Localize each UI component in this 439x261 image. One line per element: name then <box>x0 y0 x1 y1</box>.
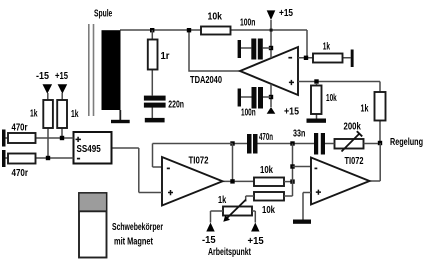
node inverting input TL072-2 <box>290 164 294 168</box>
pin minus TDA2040 <box>288 57 292 59</box>
pin minus TL072-2 <box>315 167 318 169</box>
svg-text:+15: +15 <box>55 71 68 82</box>
svg-text:SS495: SS495 <box>77 144 102 155</box>
op-amp TL072 first <box>162 157 223 206</box>
resistor 470r lower <box>8 154 36 164</box>
wire 200k leads <box>325 143 378 145</box>
node supply bottom cap <box>269 95 273 99</box>
wire 1k bias drops <box>48 93 62 158</box>
resistor 1k to ground <box>313 54 343 63</box>
power -15 arrow Arbeitspunkt <box>206 223 214 232</box>
svg-text:220n: 220n <box>168 100 184 111</box>
svg-text:-15: -15 <box>36 71 49 82</box>
power +15 arrow bottom <box>267 107 276 114</box>
coil Spule core <box>102 30 121 110</box>
node non-inverting TDA2040 <box>314 79 318 83</box>
wire 470r upper lead <box>6 137 74 139</box>
wire non-inverting TL072-2 to ground <box>303 193 311 220</box>
wire +15 supply top to TDA2040 <box>270 20 272 58</box>
node Regelung <box>378 141 382 145</box>
resistor 1k bias right <box>57 100 67 128</box>
svg-text:TI072: TI072 <box>189 155 209 166</box>
ground below coil <box>111 120 130 123</box>
capacitor 220n <box>144 96 166 101</box>
svg-text:+15: +15 <box>279 8 293 19</box>
wire 1r leads <box>151 30 153 118</box>
wire TL072-2 output to Regelung node <box>370 143 381 181</box>
capacitor 33n <box>314 133 318 155</box>
svg-text:10k: 10k <box>208 12 223 23</box>
svg-text:1r: 1r <box>161 51 170 62</box>
capacitor 100n bottom <box>252 87 257 109</box>
svg-text:10k: 10k <box>260 165 273 176</box>
capacitor 470n <box>247 134 252 154</box>
svg-text:470r: 470r <box>12 168 29 179</box>
ground left lower <box>2 150 6 167</box>
node 470n left <box>230 141 234 145</box>
wire 100n bottom leads <box>241 96 271 98</box>
node inverting bus at 10k <box>290 179 294 183</box>
ground left upper <box>2 130 6 147</box>
svg-text:33n: 33n <box>293 129 305 140</box>
sensor SS495 <box>74 132 112 164</box>
ground plate 100n bottom <box>238 89 241 107</box>
svg-text:1k: 1k <box>218 195 227 206</box>
wire 10k middle lower leads <box>246 196 293 202</box>
svg-text:-15: -15 <box>202 235 216 246</box>
wire inverting bus <box>292 144 294 197</box>
svg-text:+15: +15 <box>284 107 299 118</box>
wire TDA2040 input branch <box>189 30 240 71</box>
pin plus TL072-2 <box>316 190 321 195</box>
wire supply bottom TDA2040 <box>270 84 272 107</box>
wire coil to ground <box>119 110 121 120</box>
op-amp TDA2040 <box>240 47 298 95</box>
wire 100n top leads <box>241 47 271 49</box>
op-amp TL072 second <box>311 158 370 205</box>
wire feedback TL072-1 <box>153 144 233 168</box>
resistor 1r <box>148 40 158 70</box>
svg-text:1k: 1k <box>323 42 331 53</box>
ground below 10k vertical <box>307 119 327 123</box>
pin minus TL072-1 <box>167 167 170 169</box>
svg-text:1k: 1k <box>71 109 79 120</box>
svg-text:Spule: Spule <box>94 9 113 20</box>
coil Spule left stripes <box>88 24 90 116</box>
node inverting TDA2040 <box>304 56 308 60</box>
resistor 10k middle upper <box>254 178 284 187</box>
wire TL072-1 output branch <box>223 144 255 182</box>
resistor 10k feedback top <box>201 27 231 35</box>
resistor 470r upper <box>8 133 36 143</box>
wire inverting output node TDA2040 <box>298 57 351 59</box>
ground right of 1k <box>351 50 354 68</box>
capacitor 100n top <box>251 39 256 60</box>
node junction top rail at branch <box>187 28 191 32</box>
svg-text:100n: 100n <box>240 18 255 29</box>
wire 10k vertical leads <box>316 83 318 119</box>
potentiometer 200k <box>335 139 364 149</box>
svg-text:470n: 470n <box>259 132 273 143</box>
node 33n left <box>290 141 294 145</box>
svg-text:470r: 470r <box>12 123 28 134</box>
svg-text:Schwebekörper: Schwebekörper <box>112 222 163 233</box>
pin minus SS495 <box>77 158 80 160</box>
wire SS495 output to TL072-1 <box>112 148 163 193</box>
svg-text:200k: 200k <box>344 122 362 133</box>
svg-text:1k: 1k <box>361 104 369 115</box>
node junction top rail at 1r <box>150 28 154 32</box>
node rail crossing <box>270 29 273 32</box>
wire top rail from coil <box>120 30 307 58</box>
power +15 arrow Arbeitspunkt <box>251 223 259 232</box>
svg-text:100n: 100n <box>241 108 256 119</box>
resistor 10k middle lower <box>254 192 284 201</box>
body Schwebekoerper <box>79 193 107 258</box>
node lower lead <box>46 156 50 160</box>
wire inverting input TL072-2 <box>293 166 312 168</box>
node upper lead <box>60 136 64 140</box>
power +15 arrow left <box>58 84 68 94</box>
svg-text:10k: 10k <box>326 93 337 104</box>
pin plus TDA2040 <box>289 80 294 85</box>
svg-text:Arbeitspunkt: Arbeitspunkt <box>208 247 251 258</box>
svg-text:Regelung: Regelung <box>390 137 423 148</box>
svg-text:1k: 1k <box>30 109 38 120</box>
svg-text:TDA2040: TDA2040 <box>190 75 222 86</box>
ground below 220n <box>145 118 165 123</box>
resistor 10k vertical <box>311 86 322 115</box>
wire 470r lower lead <box>6 157 74 159</box>
potentiometer 1k Arbeitspunkt <box>223 207 252 216</box>
ground TL072-2 <box>293 220 311 224</box>
pin plus SS495 <box>76 137 81 142</box>
svg-text:TI072: TI072 <box>345 156 364 167</box>
node TL072-1 output <box>230 179 234 183</box>
wire 33n lead left <box>293 143 315 145</box>
wire pot leads <box>211 211 256 223</box>
wire 470n leads <box>233 143 293 145</box>
power -15 arrow left <box>43 84 53 94</box>
svg-text:10k: 10k <box>262 205 275 216</box>
svg-text:mit Magnet: mit Magnet <box>114 237 153 248</box>
wire non-inverting rail TDA2040 <box>298 82 380 144</box>
wire 10k middle upper right lead <box>284 181 293 183</box>
ground plate 100n top <box>238 40 241 58</box>
svg-text:+15: +15 <box>248 236 265 247</box>
node supply top cap <box>269 46 273 50</box>
resistor 1k vertical <box>375 92 386 121</box>
resistor 1k bias left <box>43 100 53 128</box>
power +15 arrow top <box>267 10 276 20</box>
pin plus TL072-1 <box>168 190 173 195</box>
